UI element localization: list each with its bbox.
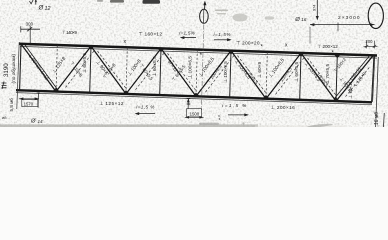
svg-text:⊥ 200×16: ⊥ 200×16: [271, 105, 296, 111]
post V3: [230, 51, 231, 98]
slope arrow left: [182, 37, 197, 39]
dimension 1500 box: [187, 109, 202, 117]
svg-text:⊤ 200×20: ⊤ 200×20: [236, 41, 260, 47]
dimension 2x3000 line: [310, 24, 375, 26]
svg-text:1570: 1570: [24, 101, 34, 106]
dashed vertical at B56: [56, 45, 57, 91]
bottom slope arrow right: [228, 114, 247, 116]
bottom slope arrow left: [137, 113, 156, 115]
diagonal D9: [301, 53, 336, 101]
dimension 1570 line: [19, 98, 39, 100]
small dots near axis bottom: [218, 115, 219, 116]
dashed parallel P6: [206, 55, 235, 92]
dashed parallel P2: [66, 50, 95, 87]
post V1: [90, 46, 91, 92]
dimension tick at 338: [337, 22, 339, 31]
svg-text:⊥ 125×12: ⊥ 125×12: [99, 101, 124, 107]
svg-text:(по обушкам): (по обушкам): [11, 54, 17, 84]
faint pencil note 2: [265, 16, 275, 20]
vertical posts (solid, at top nodes): [90, 46, 338, 101]
post V5: [336, 54, 337, 101]
svg-text:300: 300: [26, 21, 34, 26]
svg-text:x: x: [124, 39, 127, 45]
diagonal D6: [196, 51, 231, 97]
dashed parallel P7: [238, 56, 267, 94]
gusset tips at bottom nodes: [53, 88, 339, 101]
check mark symbol top-left: [30, 0, 34, 4]
dashed vertical at B126: [126, 48, 127, 94]
right margin tick: [382, 113, 385, 127]
faint note near circle: [215, 10, 228, 12]
diagonal D5: [161, 49, 196, 97]
left end post: [20, 44, 21, 91]
svg-text:2×3000: 2×3000: [338, 15, 360, 21]
dimension 300 extension vertical: [29, 26, 31, 44]
dashed vertical at B266: [266, 52, 267, 98]
right end post: [372, 56, 374, 103]
right end inner post: [373, 57, 375, 102]
dimension 1500 extension: [187, 98, 189, 109]
svg-text:ий: ий: [2, 115, 6, 120]
svg-text:i=1,5%: i=1,5%: [179, 31, 195, 36]
svg-text:14: 14: [38, 119, 44, 124]
paper smudge bottom band: [0, 124, 258, 127]
leader vertical with down arrow: [316, 0, 318, 19]
svg-text:,16 мб: ,16 мб: [374, 112, 380, 127]
dashed parallel P5: [168, 53, 197, 91]
dimension extension at 310: [309, 27, 311, 44]
svg-text:⊥ 100×6,5: ⊥ 100×6,5: [223, 61, 228, 83]
svg-text:16: 16: [301, 17, 307, 22]
svg-text:i=1,5 %: i=1,5 %: [136, 105, 154, 110]
svg-text:⊥ 60×5,5: ⊥ 60×5,5: [152, 56, 158, 77]
dimension 1570 vertical extension: [37, 93, 39, 108]
svg-text:i=1,5%: i=1,5%: [214, 32, 231, 37]
gusset tips at top nodes: [88, 46, 340, 58]
svg-text:1500: 1500: [190, 112, 200, 117]
diagonal D7: [231, 51, 266, 99]
svg-text:⊥ 60×5,5: ⊥ 60×5,5: [82, 53, 88, 74]
svg-text:⊥ 60×9: ⊥ 60×9: [257, 62, 263, 79]
dashed verticals at top nodes: [56, 45, 267, 98]
axis circle symbol: [200, 9, 209, 23]
dashed parallel P4: [136, 53, 165, 90]
svg-text:⊤ 200×12: ⊤ 200×12: [317, 44, 338, 49]
dashed parallel P3: [98, 51, 127, 89]
svg-text:⊤ 160×12: ⊤ 160×12: [139, 31, 163, 37]
right extension line: [376, 57, 379, 127]
faint marks bottom middle: [199, 123, 219, 125]
svg-text:Ø: Ø: [294, 17, 300, 23]
dimension 300 line: [21, 28, 40, 30]
axis arrow up: [204, 2, 206, 9]
svg-text:⊤ 140×9: ⊤ 140×9: [62, 30, 78, 35]
slope arrow right: [214, 39, 230, 41]
weld symbol left margin: [2, 82, 7, 90]
left extension line: [17, 42, 19, 109]
diagonal D8: [266, 53, 301, 99]
centre axis dash-dot line: [201, 25, 203, 111]
top chord: [19, 44, 377, 58]
svg-text:⊥ 60×5,5: ⊥ 60×5,5: [294, 62, 300, 83]
bottom chord: [16, 90, 372, 105]
svg-text:5,8 мб: 5,8 мб: [9, 98, 14, 112]
svg-text:974: 974: [313, 5, 317, 11]
dashed vertical at B196: [196, 50, 197, 96]
faint pencil note 1: [233, 14, 248, 22]
svg-text:Ø: Ø: [30, 119, 36, 125]
svg-text:12: 12: [45, 6, 51, 12]
big ellipse node mark: [368, 3, 383, 28]
faint diagonal smear bottom right: [307, 123, 333, 128]
diagonal D3: [91, 46, 126, 94]
diagonal D10: [336, 56, 373, 101]
dashed parallel P9: [308, 58, 337, 96]
diagonal D1 second angle: [25, 44, 58, 89]
diagonal D2: [56, 46, 91, 91]
svg-text:⊥ 100×6,5: ⊥ 100×6,5: [188, 56, 194, 79]
cut-off marks top edge: [110, 0, 124, 3]
dimension 1500 arrow line: [185, 116, 204, 118]
axis line through circle: [203, 10, 205, 23]
diagonal D4: [126, 49, 161, 94]
web diagonals (solid zigzag): [21, 44, 373, 101]
dashed parallel braces: [66, 50, 370, 96]
dashed parallel P8: [276, 57, 305, 94]
dimension 1570 box: [22, 100, 38, 107]
diagonal D1: [21, 44, 56, 92]
svg-text:3190: 3190: [3, 63, 10, 77]
diagonal D10 second angle: [334, 55, 371, 99]
post V4: [300, 53, 301, 100]
dashed parallel P10: [346, 67, 370, 97]
post V2: [160, 49, 161, 96]
